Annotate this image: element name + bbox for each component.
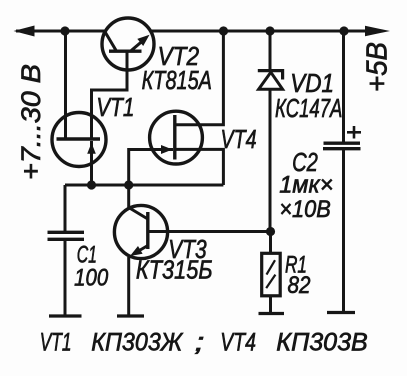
VT2 base lead wire (92, 51, 128, 140)
VT3 base lead from bottom node (127, 185, 130, 208)
VT3 collector wire to R1 node (148, 230, 271, 233)
svg-text:КП303В: КП303В (276, 329, 368, 357)
junction dot at C2 / top rail (339, 26, 348, 35)
VT4 channel bar (173, 115, 176, 160)
capacitor C2 (electrolytic) (342, 31, 345, 142)
wire: top rail right segment (151, 30, 368, 33)
R1 hatch slashes (267, 260, 276, 274)
transistor VT2 (KT815A) body (102, 18, 154, 70)
VT2 base bar (109, 50, 142, 53)
VT4 gate wire with right arrow (129, 150, 173, 186)
terminal bar below R1 (259, 312, 285, 315)
VT2 emitter with arrow (131, 38, 147, 51)
svg-text:82: 82 (288, 272, 311, 299)
svg-text:VT1: VT1 (96, 92, 134, 122)
junction dot at VT4 drain / top rail (219, 26, 228, 35)
VT4 drain wire to top rail (175, 31, 224, 125)
C2 polarity plus sign (347, 131, 361, 134)
svg-text:VT4: VT4 (220, 329, 256, 357)
junction dot at VT3 base / bottom node (124, 180, 133, 189)
transistor VT4 (KP303V JFET) body (150, 111, 203, 164)
resistor R1 (82) (269, 232, 272, 254)
VT3 emitter with arrow (136, 246, 148, 253)
svg-text:1мк×: 1мк× (279, 172, 333, 199)
terminal bar below C2 (327, 311, 355, 314)
VT1 gate lead with up arrow (90, 141, 93, 185)
VT1 channel bar (57, 137, 101, 140)
power arrow: +5V output (right, pointing right) (365, 26, 390, 36)
svg-text:;: ; (195, 329, 205, 357)
junction dot at VD1 / top rail (265, 26, 274, 35)
terminal bar below C1 (49, 314, 82, 317)
VT3 emitter lead down (127, 257, 130, 315)
svg-text:100: 100 (74, 265, 109, 292)
VT4 source wire to bottom node (175, 149, 224, 185)
transistor VT1 (KP303Zh JFET) body (52, 113, 106, 167)
zener diode VD1 (KS147A) (269, 31, 272, 70)
VT1 drain wire to top rail (64, 31, 67, 139)
wire: top +input rail left segment (16, 30, 105, 33)
svg-text:VT1: VT1 (40, 329, 72, 357)
VD1 cathode bar with zener hook (258, 71, 283, 80)
junction dot at VT3 collector / VD1 / R1 (266, 227, 275, 236)
junction dot at VT1 drain / top rail (60, 26, 69, 35)
power arrow: +7...30V input (left, pointing left) (14, 26, 35, 37)
svg-text:×10В: ×10В (279, 196, 331, 223)
svg-text:КТ315Б: КТ315Б (136, 255, 213, 285)
svg-text:КТ815А: КТ815А (142, 65, 212, 95)
capacitor C1 (64, 185, 67, 231)
svg-text:КС147А: КС147А (275, 93, 342, 123)
svg-text:+7...30 В: +7...30 В (16, 64, 46, 180)
VD1 anode wire down to R1 node (269, 89, 272, 231)
node: common bottom node wire (65, 184, 223, 187)
junction dot at VT1 gate / bottom node (87, 180, 96, 189)
VT3 base bar (146, 212, 149, 249)
terminal bar below VT3 emitter (117, 314, 144, 317)
VD1 triangle (259, 72, 283, 89)
transistor VT3 (KT315B) body (114, 205, 167, 258)
svg-text:КП303Ж: КП303Ж (91, 329, 184, 357)
svg-text:VT4: VT4 (221, 124, 257, 154)
VT2 collector (105, 32, 117, 52)
svg-text:+5В: +5В (362, 42, 394, 92)
